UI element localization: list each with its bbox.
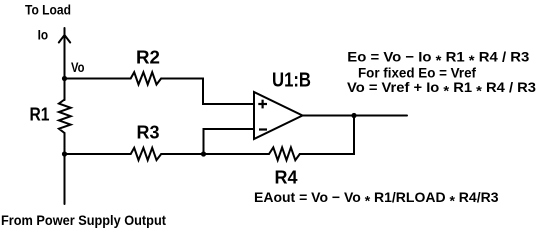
wire: R4 right to corner up to output node <box>300 116 354 155</box>
wire: junction to R4 left <box>204 153 270 155</box>
resistor R1 <box>59 100 71 134</box>
wire: lower node to R3 left <box>65 153 131 155</box>
svg-text:Vo: Vo <box>71 59 85 75</box>
node output junction dot <box>351 113 356 118</box>
wire: Vo node to R2 left <box>65 78 131 80</box>
svg-text:To Load: To Load <box>25 2 71 18</box>
svg-text:R4: R4 <box>275 168 298 188</box>
svg-text:From Power Supply Output: From Power Supply Output <box>1 212 166 228</box>
svg-text:U1:B: U1:B <box>272 70 311 92</box>
op-amp + pin marking <box>258 100 267 130</box>
resistor R2 <box>131 72 162 84</box>
node R3/R4/inverting junction dot <box>201 151 206 156</box>
resistor R3 <box>131 148 162 160</box>
svg-text:R1: R1 <box>30 104 50 124</box>
wire: R1 bottom to lower node and down to supply <box>64 133 66 204</box>
node lower-left junction dot <box>62 151 67 156</box>
op-amp - pin marking <box>259 128 267 130</box>
op-amp U1:B triangle <box>254 92 303 139</box>
svg-text:For fixed Eo = Vref: For fixed Eo = Vref <box>358 64 476 80</box>
wire: main left vertical (arrow shaft to R1 top) <box>64 28 66 100</box>
svg-text:R2: R2 <box>136 48 160 68</box>
svg-text:R3: R3 <box>137 123 160 143</box>
arrow: Io current direction up <box>59 35 70 43</box>
wire: R3 right to junction node <box>161 153 203 155</box>
wire: R2 right to corner, down, to op-amp + input <box>161 79 254 105</box>
node Vo junction dot <box>62 76 67 81</box>
wire: op-amp output <box>303 115 408 117</box>
svg-text:Io: Io <box>38 27 49 43</box>
wire: junction up to op-amp - input <box>204 129 255 154</box>
resistor R4 <box>269 147 300 160</box>
